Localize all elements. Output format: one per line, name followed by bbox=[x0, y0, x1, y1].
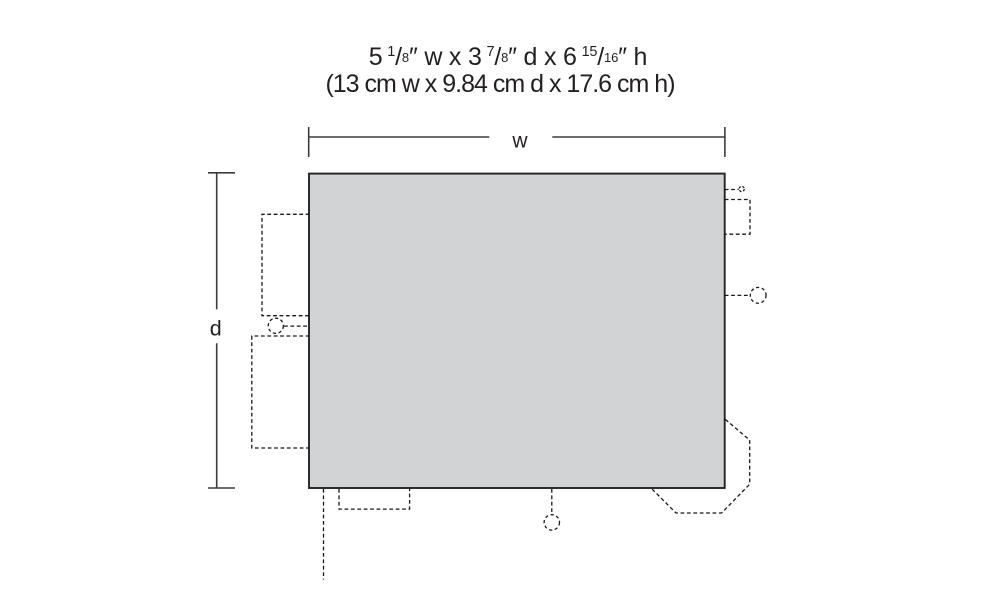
bottom dashed step rectangle bbox=[339, 489, 410, 509]
upper-right stub line bbox=[725, 189, 739, 191]
upper-left dashed overhang rectangle bbox=[262, 214, 310, 315]
label d bbox=[210, 317, 222, 341]
left dashed circle bbox=[268, 318, 283, 333]
bottom-left long dashed line bbox=[323, 489, 325, 580]
bottom middle stub line bbox=[551, 489, 553, 514]
bottom middle dashed circle bbox=[544, 515, 559, 530]
upper-right dashed rectangle bbox=[725, 200, 750, 235]
svg-text:(13 cm w x 9.84 cm d x 17.6 cm: (13 cm w x 9.84 cm d x 17.6 cm h) bbox=[325, 70, 674, 98]
svg-text:d: d bbox=[210, 317, 222, 341]
left connector line bbox=[284, 325, 310, 327]
depth dimension line with end ticks bbox=[208, 173, 235, 488]
building footprint (gray rectangle) bbox=[309, 174, 725, 488]
right middle dashed circle bbox=[750, 287, 766, 303]
right middle stub line bbox=[725, 294, 751, 296]
svg-text:5 1/8″ w x 3 7/8″ d x 6 15/16″: 5 1/8″ w x 3 7/8″ d x 6 15/16″ h bbox=[369, 43, 647, 71]
width dimension line with end ticks bbox=[309, 127, 725, 157]
dashed details bbox=[252, 190, 751, 580]
svg-text:w: w bbox=[511, 129, 528, 152]
label w bbox=[511, 129, 528, 152]
lower-left dashed overhang rectangle bbox=[252, 336, 310, 448]
upper-right tiny dashed circle bbox=[739, 186, 744, 191]
title line 1: imperial dimensions bbox=[369, 43, 647, 71]
lower-right dashed bay (octagon) bbox=[652, 419, 750, 513]
title line 2: metric dimensions bbox=[325, 70, 674, 98]
